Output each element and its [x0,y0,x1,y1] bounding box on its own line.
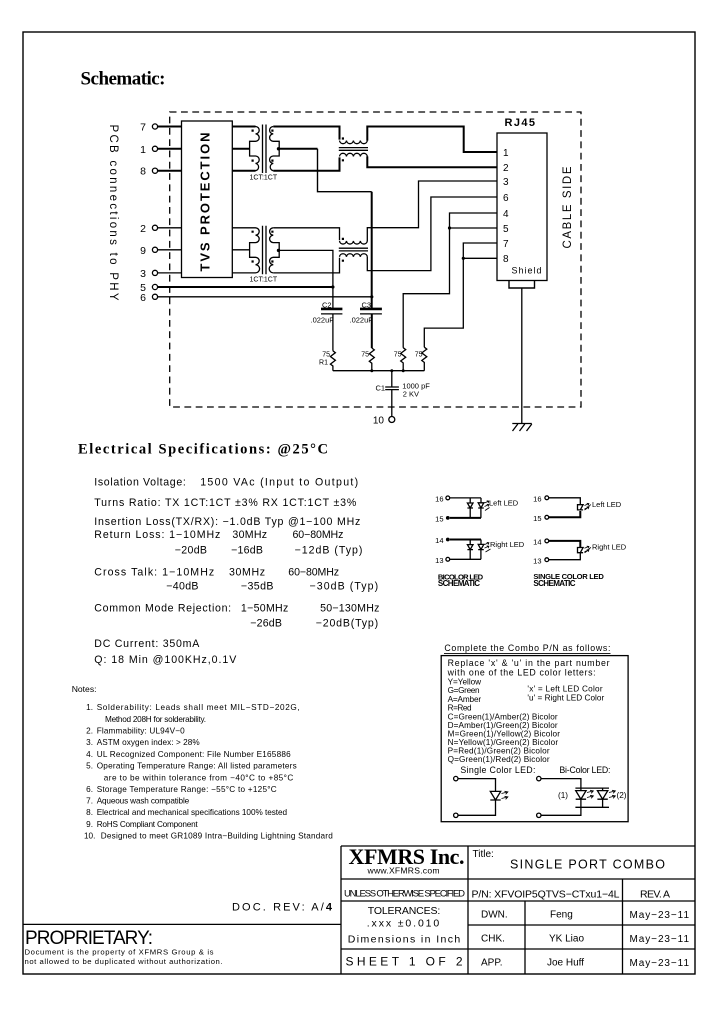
wire pin5 to C2 junction [158,286,333,288]
combo bicolor bottom terminal [537,813,541,817]
svg-text:PCB connections to PHY: PCB connections to PHY [107,125,119,301]
bicolor LED D4 (right) [478,540,484,560]
svg-text:3: 3 [503,177,509,188]
bicolor pin 15 terminal [446,516,450,520]
svg-text:SINGLE PORT COMBO: SINGLE PORT COMBO [510,858,665,872]
svg-text:Feng: Feng [550,910,573,921]
wire T1 secondary bottom to choke L1 [273,157,339,170]
svg-text:14: 14 [435,536,443,545]
svg-text:R1: R1 [319,360,328,367]
svg-text:7: 7 [503,239,509,250]
wire TVS to T1 bottom [232,170,255,172]
wire TVS to T1 center tap [232,148,249,150]
wire pin8 to TVS [158,170,182,172]
svg-text:TVS PROTECTION: TVS PROTECTION [198,133,213,272]
svg-text:.022uF: .022uF [311,315,335,324]
svg-text:15: 15 [533,514,541,523]
svg-text:75: 75 [394,352,402,359]
svg-text:7.: 7. [86,797,93,806]
svg-text:Right LED: Right LED [592,543,627,552]
transformer T1 secondary winding [270,127,280,171]
wire T2 secondary bottom to choke L2 [273,258,339,273]
svg-text:May−23−11: May−23−11 [630,910,690,921]
choke L2 top winding [340,241,368,244]
svg-text:1: 1 [140,144,146,156]
svg-text:REV. A: REV. A [640,889,670,901]
chassis ground symbol [512,424,532,432]
svg-text:(1): (1) [558,791,568,800]
transformer T1 core [263,125,267,174]
RJ45 connector J1 body [497,133,547,281]
svg-text:DC Current: 350mA: DC Current: 350mA [94,638,200,650]
wire termination rail [333,370,424,372]
choke L1 top winding [340,141,368,144]
choke L1 polarity dots [342,137,344,161]
node pin 5 terminal [152,284,157,289]
svg-text:Storage Temperature Range: −55: Storage Temperature Range: −55°C to +125… [97,785,277,794]
svg-text:May−23−11: May−23−11 [630,958,690,969]
svg-text:are to be within tolerance fro: are to be within tolerance from −40°C to… [104,774,294,783]
svg-text:13: 13 [435,556,443,565]
svg-text:PROPRIETARY:: PROPRIETARY: [25,928,153,949]
svg-text:Common Mode Rejection:: Common Mode Rejection: [94,603,231,615]
wire TVS to T2 bottom [232,272,255,274]
node pin 1 terminal [152,146,157,151]
svg-text:8: 8 [503,254,509,265]
svg-text:DOC. REV: A/4: DOC. REV: A/4 [232,902,333,914]
svg-text:2: 2 [503,163,509,174]
svg-text:Joe Huff: Joe Huff [547,958,584,969]
svg-text:10.: 10. [84,831,95,840]
single pin 14 terminal [545,539,549,543]
svg-text:Complete the Combo P/N as foll: Complete the Combo P/N as follows: [444,643,610,653]
svg-text:Document is the property of XF: Document is the property of XFMRS Group … [25,948,214,957]
wire T1 secondary top to choke L1 [273,127,339,140]
svg-text:16: 16 [533,494,541,503]
wire shield to chassis ground [521,288,523,423]
svg-text:−20dB: −20dB [175,545,207,557]
svg-text:16: 16 [435,494,443,503]
svg-text:2.: 2. [86,727,93,736]
wire TVS to T1 top [232,126,255,128]
svg-text:Bi-Color LED:: Bi-Color LED: [559,765,610,775]
svg-text:UL Recognized Component: File: UL Recognized Component: File Number E16… [97,750,291,759]
choke L2 bottom winding [340,254,368,257]
wire pin3 to TVS [158,272,182,274]
transformer T2 core [263,226,267,274]
svg-text:Q=Green(1)/Red(2) Bicolor: Q=Green(1)/Red(2) Bicolor [448,755,550,764]
svg-text:50−130MHz: 50−130MHz [320,603,379,615]
wire choke L2 to RJ45 pin3 [367,181,497,241]
svg-text:1: 1 [503,148,509,159]
single LED D5 [578,505,584,510]
wire pin6 to C3 junction [158,296,372,298]
resistor R1 [330,351,335,371]
svg-text:4: 4 [503,209,509,220]
svg-text:TOLERANCES:: TOLERANCES: [368,905,441,917]
node pin 2 terminal [152,225,157,230]
svg-text:15: 15 [435,514,443,523]
svg-text:2 KV: 2 KV [403,390,419,399]
svg-text:7: 7 [140,122,146,134]
wire T1 center tap to C3 [279,148,317,150]
bicolor pin 14 terminal [446,538,450,542]
TVS protection U1 box [182,121,233,278]
wire C3 to R2 [371,314,373,348]
resistor R4 [422,347,427,371]
svg-text:C1: C1 [376,384,386,393]
svg-text:9.: 9. [86,820,93,829]
wire C1 to pin 10 [391,390,393,417]
svg-text:Electrical and mechanical spec: Electrical and mechanical specifications… [97,808,288,817]
resistor R3 [401,348,406,371]
wire choke L1 to RJ45 pin2 [367,156,497,167]
combo single LED diode [490,791,500,800]
svg-text:1CT:1CT: 1CT:1CT [250,175,278,182]
wire RJ45 pin4 to R3 [403,213,497,348]
svg-text:Title:: Title: [473,849,494,860]
svg-text:75: 75 [322,352,330,359]
svg-text:Aqueous wash compatible: Aqueous wash compatible [97,797,190,806]
wire choke L2 to RJ45 pin6 [367,197,497,271]
svg-text:Left LED: Left LED [489,498,519,507]
svg-text:30MHz: 30MHz [232,529,267,541]
svg-text:6: 6 [503,193,509,204]
node pin 8 terminal [152,168,157,173]
node pin 6 terminal [152,294,157,299]
junction pin4/pin5 [448,226,451,229]
svg-text:Method 208H for solderability.: Method 208H for solderability. [105,715,206,724]
svg-text:.022uF: .022uF [350,315,374,324]
bicolor LED D1 (left, anode up) [467,498,473,518]
svg-text:Flammability: UL94V−0: Flammability: UL94V−0 [97,727,185,736]
single LED D6 [578,548,584,553]
svg-text:−35dB: −35dB [241,581,274,593]
transformer T2 secondary winding [269,228,279,273]
svg-text:Turns Ratio: TX 1CT:1CT ±3% RX: Turns Ratio: TX 1CT:1CT ±3% RX 1CT:1CT ±… [94,497,357,509]
svg-text:3: 3 [140,268,146,280]
svg-text:75: 75 [361,352,369,359]
single pin 15 terminal [545,515,549,519]
svg-text:APP.: APP. [481,958,503,969]
combo bicolor diode 2 light arrows [609,790,615,798]
svg-text:4.: 4. [86,750,93,759]
svg-text:5: 5 [503,224,509,235]
single pin 13 terminal [545,558,549,562]
combo single LED top terminal [454,776,458,780]
bicolor LED D2 (right, anode down) [478,498,484,518]
svg-text:2: 2 [140,223,146,235]
junction C1/rail [390,369,393,372]
choke L1 core [339,148,368,151]
junction R3/rail [402,369,405,372]
svg-text:CABLE SIDE: CABLE SIDE [562,166,574,248]
svg-text:Designed to meet GR1089 Intra−: Designed to meet GR1089 Intra−Building L… [101,831,333,840]
svg-text:May−23−11: May−23−11 [630,934,690,945]
svg-text:Operating Temperature Range: A: Operating Temperature Range: All listed … [97,761,297,770]
svg-text:Return Loss: 1−10MHz: Return Loss: 1−10MHz [94,529,220,541]
combo single LED bottom wire [458,800,496,815]
junction R2/rail [370,369,373,372]
svg-text:1500 VAc (Input to Output): 1500 VAc (Input to Output) [200,477,358,489]
svg-text:Right LED: Right LED [490,540,525,549]
svg-text:6: 6 [140,292,146,304]
svg-text:Insertion Loss(TX/RX): −1.0dB: Insertion Loss(TX/RX): −1.0dB Typ @1−100… [94,516,360,528]
svg-text:www.XFMRS.com: www.XFMRS.com [367,866,440,876]
svg-text:Solderability: Leads shall mee: Solderability: Leads shall meet MIL−STD−… [97,703,300,712]
svg-text:5.: 5. [86,761,93,770]
bicolor pin 13 terminal [446,557,450,561]
svg-text:Q: 18 Min @100KHz,0.1V: Q: 18 Min @100KHz,0.1V [94,654,237,666]
svg-text:not allowed to be duplicated w: not allowed to be duplicated without aut… [25,957,223,966]
resistor R2 [369,348,374,371]
combo bicolor diode 2 [597,788,607,807]
svg-text:−16dB: −16dB [231,545,263,557]
single wire pin16 [549,498,581,505]
combo single LED light arrows [502,791,508,799]
svg-text:30MHz: 30MHz [229,567,265,579]
svg-text:13: 13 [533,556,541,565]
bicolor pin 16 terminal [446,496,450,500]
choke L2 core [339,248,368,251]
junction pin6/C3 [370,295,373,298]
svg-text:6.: 6. [86,785,93,794]
bicolor Left LED label with leader [485,501,489,507]
svg-text:Shield: Shield [512,266,542,276]
wire T2 center tap to C2 [279,250,333,309]
node pin 7 terminal [152,124,157,129]
capacitor C3 plates [360,308,382,311]
node pin 9 terminal [152,247,157,252]
transformer T2 primary winding [250,228,260,273]
combo single LED bottom terminal [454,813,458,817]
wire RJ45 pin8 to R4 [424,258,497,347]
svg-text:UNLESS OTHERWISE SPECIFIED: UNLESS OTHERWISE SPECIFIED [344,889,465,900]
svg-text:R=Red: R=Red [448,703,472,712]
bicolor wire pin15 bottom rail [450,517,481,519]
transformer T1 primary winding [250,127,260,171]
wire pin1 to TVS [158,148,182,150]
svg-text:'x' = Left LED Color: 'x' = Left LED Color [527,684,602,693]
wire choke L1 to RJ45 pin1 [367,127,497,153]
svg-text:'u' = Right LED Color: 'u' = Right LED Color [527,693,604,702]
svg-text:−12dB (Typ): −12dB (Typ) [295,545,363,557]
capacitor C1 plates [385,387,399,390]
svg-text:Left LED: Left LED [592,500,622,509]
svg-text:CHK.: CHK. [481,934,505,945]
svg-text:Isolation Voltage:: Isolation Voltage: [94,477,186,489]
combo bicolor diode 1 [576,788,586,807]
svg-text:10: 10 [373,416,385,427]
bicolor LED D3 (left) [467,540,473,560]
bicolor wire pin13 bottom rail [450,558,481,560]
combo bicolor package rails [575,788,609,807]
svg-text:(2): (2) [617,791,627,800]
svg-text:8.: 8. [86,808,93,817]
transformer T1 polarity dots [252,130,274,162]
junction T1 secondary tap [277,147,280,150]
svg-text:YK Liao: YK Liao [549,934,584,945]
bicolor wire pin14 top rail [450,539,481,541]
svg-text:Electrical Specifications: @25: Electrical Specifications: @25°C [78,442,328,458]
svg-text:3.: 3. [86,738,93,747]
single wire pin14 [549,541,581,548]
single Left LED label with leader [585,503,589,509]
wire RJ45 pin5 to pin4 net [450,227,498,229]
single Right LED label with leader [585,546,589,552]
wire pin7 to TVS [158,126,182,128]
svg-text:−26dB: −26dB [250,618,282,630]
svg-text:−20dB(Typ): −20dB(Typ) [316,618,378,630]
wire RJ45 pin7 to pin8 net [463,243,497,258]
transformer T2 polarity dots [252,231,274,263]
wire pin2 to TVS [158,227,182,229]
svg-text:1.: 1. [86,703,93,712]
svg-text:ASTM oxygen index: > 28%: ASTM oxygen index: > 28% [97,738,200,747]
combo single LED top wire [458,779,496,792]
bicolor Right LED label with leader [485,542,489,548]
single wire pin15 [549,511,581,517]
node pin 10 terminal [389,417,395,423]
svg-text:with one of the LED color lett: with one of the LED color letters: [447,667,596,677]
proprietary box [23,923,341,925]
svg-text:60−80MHz: 60−80MHz [293,529,344,541]
svg-text:8: 8 [140,166,146,178]
wire TVS to T2 top [232,227,255,229]
bicolor wire pin16 top rail [450,497,481,499]
svg-text:SHEET 1 OF 2: SHEET 1 OF 2 [346,954,463,968]
combo bicolor diode 1 light arrows [587,790,593,798]
svg-text:SCHEMATIC: SCHEMATIC [533,579,575,588]
svg-text:60−80MHz: 60−80MHz [288,567,339,579]
svg-text:Single Color LED:: Single Color LED: [460,765,535,775]
svg-text:P/N: XFVOIP5QTVS−CTxu1−4L: P/N: XFVOIP5QTVS−CTxu1−4L [472,889,620,901]
wire TVS to T2 center tap [232,249,249,251]
RJ45 shield tab [509,281,535,289]
svg-text:Schematic:: Schematic: [81,69,166,90]
svg-text:RJ45: RJ45 [505,117,536,129]
combo bicolor top terminal [537,776,541,780]
junction T2 secondary tap [277,249,280,252]
single pin 16 terminal [545,496,549,500]
combo bicolor top wire [541,779,581,789]
svg-text:Cross Talk: 1−10MHz: Cross Talk: 1−10MHz [94,567,214,579]
svg-text:1CT:1CT: 1CT:1CT [250,277,278,284]
title block outline [341,846,695,974]
wire T2 secondary top to choke L2 [273,228,339,241]
svg-text:Notes:: Notes: [72,684,97,694]
svg-text:RoHS Compliant Component: RoHS Compliant Component [97,820,199,829]
schematic dashed boundary [170,112,581,407]
choke L2 polarity dots [342,238,344,262]
svg-text:DWN.: DWN. [481,910,508,921]
junction pin7/pin8 [462,257,465,260]
svg-text:−40dB: −40dB [166,581,198,593]
svg-text:−30dB (Typ): −30dB (Typ) [310,581,379,593]
svg-text:14: 14 [533,538,541,547]
node pin 3 terminal [152,270,157,275]
svg-text:9: 9 [140,245,146,257]
junction pin5/C2 [331,285,334,288]
svg-text:Dimensions in Inch: Dimensions in Inch [348,934,461,946]
combo instructions box [441,656,628,822]
wire rail to C1 [391,371,393,387]
svg-text:SCHEMATIC: SCHEMATIC [438,579,480,588]
svg-text:1−50MHz: 1−50MHz [241,603,288,615]
choke L1 bottom winding [340,153,368,156]
single wire pin13 [549,553,581,560]
capacitor C2 plates [321,308,342,311]
wire C2 to R1 [332,314,334,351]
wire pin9 to TVS [158,249,182,251]
combo bicolor bottom wire [541,807,581,815]
